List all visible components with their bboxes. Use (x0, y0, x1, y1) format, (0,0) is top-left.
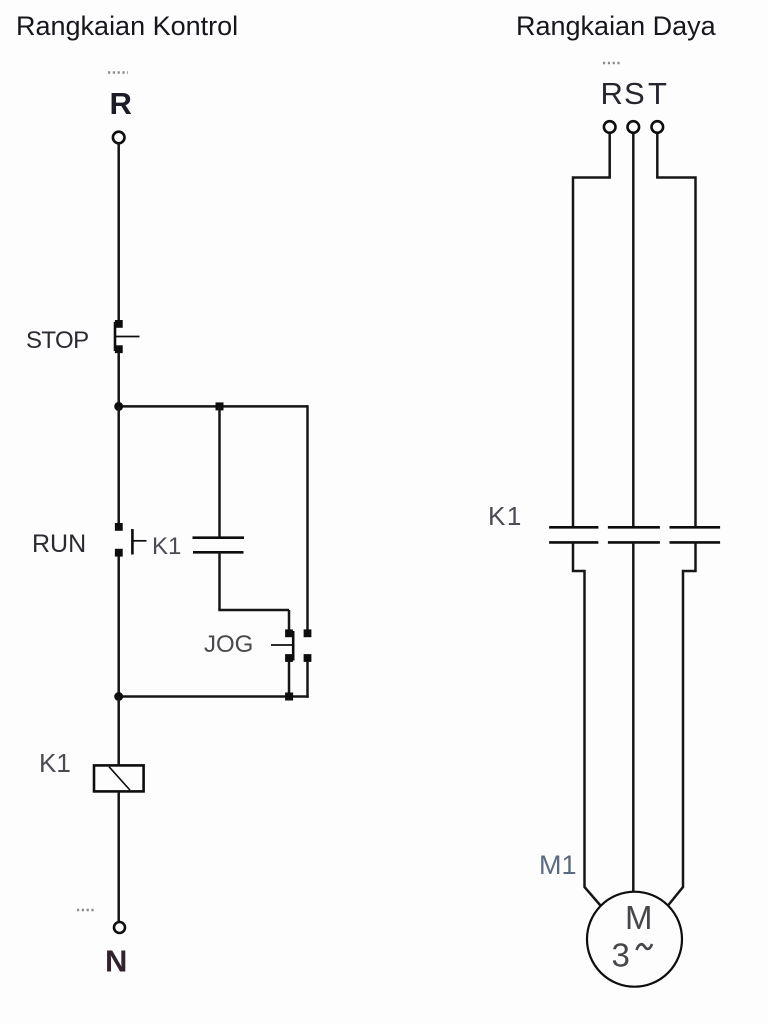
svg-text:K1: K1 (152, 533, 181, 560)
svg-text:Rangkaian Kontrol: Rangkaian Kontrol (16, 11, 238, 41)
svg-text:N: N (105, 944, 127, 979)
svg-text:STOP: STOP (26, 327, 89, 354)
svg-text:K1: K1 (39, 748, 71, 778)
svg-text:M1: M1 (539, 850, 577, 880)
svg-text:Rangkaian Daya: Rangkaian Daya (516, 11, 717, 41)
svg-text:JOG: JOG (204, 631, 253, 658)
svg-text:R: R (110, 86, 132, 121)
svg-text:S: S (624, 76, 645, 111)
svg-text:M: M (625, 899, 653, 936)
svg-text:T: T (648, 76, 667, 111)
svg-text:RUN: RUN (32, 530, 86, 558)
svg-text:3: 3 (612, 937, 630, 974)
svg-text:K1: K1 (488, 501, 523, 531)
svg-text:R: R (601, 76, 623, 111)
